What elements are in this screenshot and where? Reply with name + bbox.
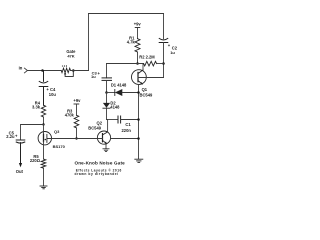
node C1 ground junction: [137, 118, 140, 121]
svg-text:220Ω: 220Ω: [30, 158, 41, 163]
resistor R3: [74, 115, 79, 128]
wire R5 to ground: [43, 168, 45, 185]
capacitor C2: [159, 38, 168, 42]
svg-text:4.7k: 4.7k: [127, 39, 136, 44]
capacitor C1: [118, 116, 121, 123]
svg-text:1 2 3: 1 2 3: [62, 65, 68, 68]
svg-text:C1: C1: [125, 122, 131, 127]
svg-text:Out: Out: [16, 169, 24, 174]
svg-text:2.2u: 2.2u: [6, 134, 15, 139]
svg-text:D1 4148: D1 4148: [111, 82, 127, 87]
svg-text:10u: 10u: [49, 92, 57, 97]
node R3 gate junction: [75, 137, 77, 139]
resistor R2: [144, 61, 157, 66]
wire pot to riser: [71, 70, 89, 72]
node pot wiper junction: [72, 69, 75, 72]
wire signal node to C5: [21, 125, 44, 140]
svg-text:3.3k: 3.3k: [32, 104, 41, 109]
capacitor C3: [102, 64, 112, 93]
svg-text:+: +: [168, 43, 171, 48]
potentiometer Gate 47K: [61, 68, 73, 76]
svg-text:220n: 220n: [122, 128, 132, 133]
resistor R4: [41, 105, 45, 117]
wire R2 right lead: [157, 63, 164, 65]
wire pump out to C1: [107, 119, 119, 121]
wire Q2 right to ground chain: [111, 138, 139, 140]
node D1 ground junction: [137, 91, 140, 94]
svg-text:drawn by dirtybandei: drawn by dirtybandei: [75, 172, 119, 176]
wire R4 to node: [43, 117, 45, 125]
svg-text:47K: 47K: [67, 54, 74, 59]
wire main ground chain: [138, 93, 140, 159]
diode D1: [107, 89, 139, 96]
transistor Q1 BC549: [132, 64, 147, 93]
wire input line: [27, 70, 61, 72]
svg-text:+: +: [98, 71, 101, 76]
wire collector node line: [107, 63, 144, 65]
capacitor C4: [39, 71, 48, 106]
capacitor C5: [16, 140, 25, 163]
ground below Q2: [103, 149, 109, 152]
svg-text:1u: 1u: [91, 74, 96, 79]
node input junction: [41, 69, 44, 72]
svg-text:In: In: [19, 65, 23, 70]
node collector junction: [136, 62, 139, 65]
power +9v rail R1: [135, 28, 140, 39]
transistor Q2 BC549: [97, 120, 110, 149]
wire top rail down to C2: [163, 14, 165, 39]
svg-text:BS170: BS170: [53, 144, 66, 149]
node gate line ground junction: [137, 137, 140, 140]
wire gate line: [51, 138, 102, 140]
ground below R5: [40, 186, 47, 189]
power +9v rail R3: [74, 104, 79, 115]
wire top rail: [89, 13, 164, 15]
transistor Q3 BS170: [38, 125, 51, 160]
wire C1 to ground chain: [121, 119, 139, 121]
node R2 right junction: [162, 62, 165, 65]
resistor R5: [41, 159, 46, 168]
svg-text:+9v: +9v: [73, 98, 81, 103]
svg-text:+: +: [15, 133, 18, 138]
svg-text:BC549: BC549: [88, 126, 101, 131]
svg-text:+9v: +9v: [134, 21, 142, 26]
wire R3 to gate line: [76, 128, 78, 139]
svg-text:470k: 470k: [65, 113, 75, 118]
svg-text:Q3: Q3: [54, 129, 60, 134]
svg-text:1u: 1u: [170, 50, 175, 55]
svg-text:One-Knob Noise Gate: One-Knob Noise Gate: [75, 161, 126, 166]
diode D2: [103, 93, 110, 120]
connector In: [24, 68, 27, 73]
wire riser to top rail: [88, 14, 90, 71]
node signal: [42, 123, 44, 125]
wire C2 to node: [163, 43, 165, 78]
node pump junction: [105, 91, 108, 94]
svg-text:R2 2.2M: R2 2.2M: [139, 54, 155, 59]
wire Q1 base to C2 node: [138, 77, 164, 79]
svg-text:4148: 4148: [110, 105, 120, 110]
wire R1 to collector node: [137, 52, 139, 64]
resistor R1: [135, 39, 140, 52]
svg-text:BC549: BC549: [140, 92, 153, 97]
connector Out arrow: [19, 163, 22, 167]
ground main: [135, 159, 143, 162]
